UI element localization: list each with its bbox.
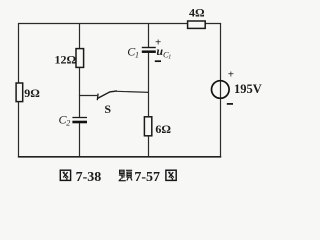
wire C1 branch lower [148,136,150,158]
capacitor C1 top plate [142,47,156,49]
resistor 9Ω [16,83,23,102]
svg-text:1: 1 [168,54,171,60]
caption hanzi 图 (first) [60,170,70,180]
wire left branch lower [18,101,20,157]
svg-text:S: S [104,102,111,116]
wire switch left segment [79,95,97,97]
svg-text:1: 1 [135,51,139,60]
wire C2 branch upper [79,95,81,117]
wire top right segment [205,23,221,25]
source 195V circle [212,81,230,99]
svg-text:6Ω: 6Ω [155,122,171,136]
wire left branch upper [18,23,20,84]
capacitor C2 top plate [72,117,87,119]
wire bottom rail [18,156,221,158]
svg-text:7-38: 7-38 [76,170,102,185]
resistor 6Ω [144,117,151,136]
wire 12Ω branch to switch node [79,67,81,96]
capacitor C1 bottom plate [142,50,156,53]
label - of uC1 [155,60,161,62]
switch S contact tick [96,94,99,101]
label - of source [227,103,233,105]
resistor 12Ω [76,49,84,68]
svg-text:+: + [228,69,234,81]
capacitor C2 bottom plate [72,121,87,124]
wire top rail [18,23,188,25]
svg-text:9Ω: 9Ω [24,86,40,100]
svg-text:12Ω: 12Ω [55,53,77,67]
wire C2 branch lower [79,123,81,158]
caption hanzi 图 (second) [166,170,176,180]
resistor 4Ω [188,21,206,28]
caption hanzi 题 [119,170,133,181]
wire C1 branch upper [148,24,150,48]
wire C1 branch middle [148,53,150,117]
wire 12Ω branch upper [79,24,81,50]
wire right branch [220,23,222,158]
svg-text:7-57: 7-57 [134,170,160,185]
svg-text:2: 2 [66,118,70,127]
svg-text:195V: 195V [234,82,262,96]
svg-text:4Ω: 4Ω [189,6,205,20]
wire switch right segment [117,91,150,92]
switch S blade [98,91,117,99]
